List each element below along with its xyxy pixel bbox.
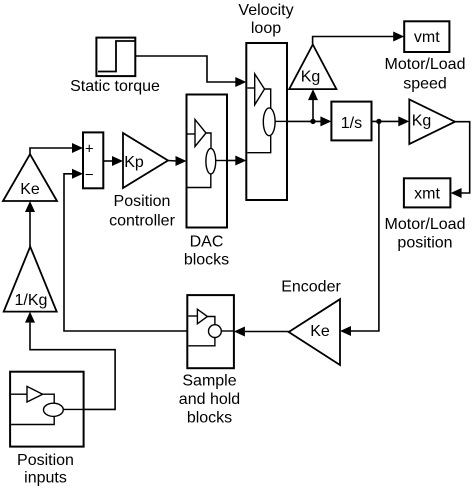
svg-text:Position: Position: [114, 193, 171, 210]
junction node at 1/s output: [376, 119, 381, 124]
svg-text:Motor/Load: Motor/Load: [385, 56, 466, 73]
svg-text:Velocity: Velocity: [238, 2, 293, 19]
integrator block 1/s: [331, 102, 371, 141]
wire branch up to gain Kg: [308, 89, 318, 121]
wire position inputs to 1/Kg: [25, 312, 115, 410]
svg-text:Ke: Ke: [310, 323, 330, 340]
wire Kg to xmt: [451, 122, 470, 198]
wire feedback from 1/s junction down to encoder: [340, 121, 379, 336]
svg-text:position: position: [397, 235, 452, 252]
svg-text:DAC: DAC: [190, 234, 224, 251]
scope block vmt: [404, 21, 449, 52]
subsystem Position inputs: [10, 372, 84, 447]
svg-text:controller: controller: [109, 213, 175, 230]
gain Kg (position to xmt): [409, 99, 455, 144]
label Sample and hold blocks: [179, 373, 240, 427]
wire Ke apex to sum plus input: [30, 143, 83, 154]
wire velocity loop output to integrator 1/s: [287, 116, 331, 126]
gain 1/Kg: [4, 247, 57, 312]
source block Static torque: [96, 38, 135, 77]
wire sum to Kp: [103, 156, 123, 166]
svg-text:+: +: [85, 141, 94, 158]
svg-text:1/Kg: 1/Kg: [15, 292, 48, 309]
svg-text:loop: loop: [251, 20, 281, 37]
junction node at velocity loop output: [310, 119, 315, 124]
svg-text:vmt: vmt: [414, 29, 440, 46]
label Position inputs: [17, 452, 74, 487]
scope block xmt: [404, 178, 451, 207]
svg-text:Kg: Kg: [301, 69, 321, 86]
svg-text:speed: speed: [403, 76, 447, 93]
svg-text:Encoder: Encoder: [281, 279, 341, 296]
wire encoder to sample and hold: [234, 327, 289, 337]
svg-text:Kp: Kp: [124, 154, 144, 171]
wire DAC to velocity loop input 2: [227, 156, 246, 166]
label Position controller: [109, 193, 175, 230]
subsystem Sample and hold blocks: [187, 295, 234, 368]
svg-text:Position: Position: [17, 452, 74, 469]
wire 1/Kg apex to Ke: [25, 201, 35, 247]
wire Kg to vmt: [313, 32, 405, 45]
svg-text:inputs: inputs: [24, 470, 67, 487]
gain Kg (velocity to vmt): [289, 45, 336, 90]
gain Kp Position controller: [123, 133, 168, 188]
svg-text:1/s: 1/s: [341, 115, 362, 132]
svg-text:−: −: [85, 167, 94, 184]
svg-text:Kg: Kg: [412, 113, 432, 130]
label Velocity loop: [238, 2, 293, 37]
svg-text:Sample: Sample: [182, 373, 236, 390]
label Motor/Load speed: [385, 56, 466, 93]
wire 1/s to gain Kg motor position: [372, 116, 410, 126]
gain Ke Encoder: [289, 299, 340, 365]
wire static torque to velocity loop input 1: [136, 56, 247, 87]
svg-text:blocks: blocks: [187, 410, 232, 427]
wire sample and hold to sum minus input: [64, 169, 187, 331]
label DAC blocks: [184, 234, 229, 269]
subsystem DAC blocks: [187, 95, 228, 228]
gain Ke (position feedback to sum): [3, 154, 57, 201]
svg-text:Static torque: Static torque: [70, 78, 160, 95]
label Motor/Load position: [385, 216, 466, 252]
svg-text:and hold: and hold: [179, 391, 240, 408]
svg-text:xmt: xmt: [414, 186, 440, 203]
svg-text:Motor/Load: Motor/Load: [385, 216, 466, 233]
wire Kp to DAC blocks: [168, 156, 187, 166]
sum block: [83, 132, 103, 188]
subsystem Velocity loop: [246, 43, 287, 200]
svg-text:Ke: Ke: [20, 181, 40, 198]
svg-text:blocks: blocks: [184, 252, 229, 269]
